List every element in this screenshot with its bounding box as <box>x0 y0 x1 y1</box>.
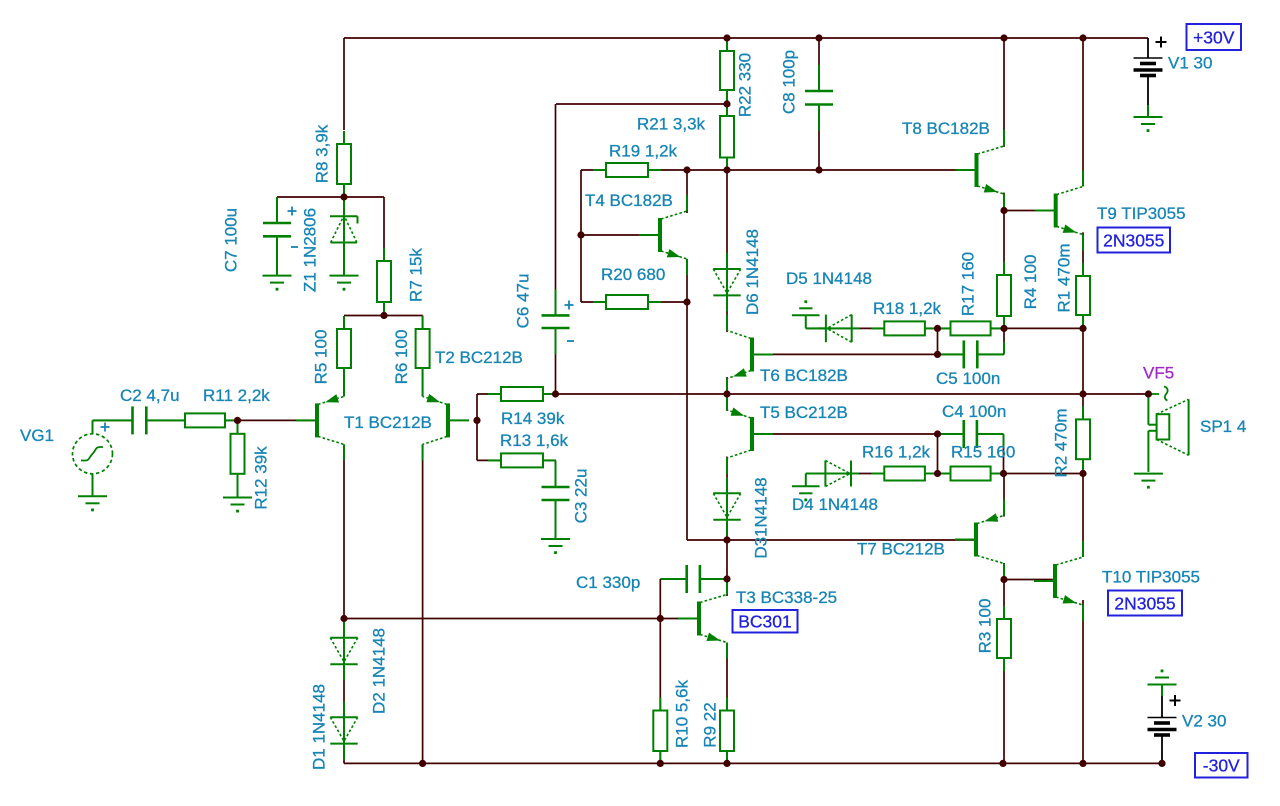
svg-text:SP1 4: SP1 4 <box>1200 417 1246 436</box>
svg-text:R18 1,2k: R18 1,2k <box>873 299 942 318</box>
svg-text:R20 680: R20 680 <box>601 265 665 284</box>
svg-text:R11 2,2k: R11 2,2k <box>203 386 270 405</box>
svg-text:R3 100: R3 100 <box>976 599 995 654</box>
svg-text:D4 1N4148: D4 1N4148 <box>792 495 878 514</box>
svg-text:V2 30: V2 30 <box>1182 712 1226 731</box>
svg-text:R21 3,3k: R21 3,3k <box>637 115 706 134</box>
svg-text:T6 BC182B: T6 BC182B <box>760 366 848 385</box>
svg-text:C3 22u: C3 22u <box>572 469 591 524</box>
svg-text:V1 30: V1 30 <box>1168 54 1212 73</box>
svg-text:T10 TIP3055: T10 TIP3055 <box>1102 568 1200 587</box>
svg-text:R8 3,9k: R8 3,9k <box>313 124 332 183</box>
svg-text:C6 47u: C6 47u <box>514 274 533 329</box>
svg-text:R5 100: R5 100 <box>312 330 331 385</box>
svg-text:2N3055: 2N3055 <box>1103 230 1164 250</box>
svg-text:R1 470m: R1 470m <box>1055 244 1074 313</box>
svg-text:+30V: +30V <box>1193 27 1235 47</box>
svg-text:R9 22: R9 22 <box>701 702 720 747</box>
svg-text:R10 5,6k: R10 5,6k <box>673 679 692 748</box>
svg-text:R14 39k: R14 39k <box>501 409 565 428</box>
svg-text:T3 BC338-25: T3 BC338-25 <box>736 588 837 607</box>
svg-text:T5 BC212B: T5 BC212B <box>760 403 848 422</box>
svg-text:C7 100u: C7 100u <box>222 208 241 272</box>
svg-text:R16 1,2k: R16 1,2k <box>862 443 931 462</box>
svg-text:D5 1N4148: D5 1N4148 <box>786 269 872 288</box>
svg-text:D2 1N4148: D2 1N4148 <box>370 628 389 714</box>
svg-text:D31N4148: D31N4148 <box>752 477 771 558</box>
svg-text:C5 100n: C5 100n <box>936 369 1000 388</box>
svg-text:-30V: -30V <box>1203 756 1240 776</box>
svg-text:R2 470m: R2 470m <box>1052 409 1071 478</box>
svg-text:T8 BC182B: T8 BC182B <box>902 119 990 138</box>
svg-text:T7 BC212B: T7 BC212B <box>857 540 945 559</box>
svg-text:R7 15k: R7 15k <box>407 248 426 302</box>
svg-text:C1 330p: C1 330p <box>576 573 640 592</box>
svg-text:C8 100p: C8 100p <box>780 50 799 114</box>
svg-text:T4 BC182B: T4 BC182B <box>585 191 673 210</box>
svg-text:R6 100: R6 100 <box>392 330 411 385</box>
svg-text:R13 1,6k: R13 1,6k <box>500 431 569 450</box>
svg-text:T1 BC212B: T1 BC212B <box>344 413 432 432</box>
svg-text:VG1: VG1 <box>20 426 54 445</box>
svg-text:BC301: BC301 <box>738 612 792 632</box>
svg-text:C2 4,7u: C2 4,7u <box>120 386 180 405</box>
svg-text:T9 TIP3055: T9 TIP3055 <box>1097 204 1186 223</box>
svg-text:T2 BC212B: T2 BC212B <box>435 348 523 367</box>
svg-text:VF5: VF5 <box>1143 364 1174 383</box>
svg-text:D1 1N4148: D1 1N4148 <box>310 684 329 770</box>
svg-text:C4 100n: C4 100n <box>942 402 1006 421</box>
svg-text:R22 330: R22 330 <box>736 53 755 117</box>
svg-text:R12 39k: R12 39k <box>252 446 271 510</box>
svg-text:D6 1N4148: D6 1N4148 <box>743 229 762 315</box>
svg-text:R15 160: R15 160 <box>951 443 1015 462</box>
svg-text:R19 1,2k: R19 1,2k <box>609 142 678 161</box>
svg-text:R17 160: R17 160 <box>959 252 978 316</box>
svg-text:2N3055: 2N3055 <box>1114 593 1175 613</box>
svg-text:Z1 1N2806: Z1 1N2806 <box>301 208 320 292</box>
svg-text:R4 100: R4 100 <box>1021 255 1040 310</box>
